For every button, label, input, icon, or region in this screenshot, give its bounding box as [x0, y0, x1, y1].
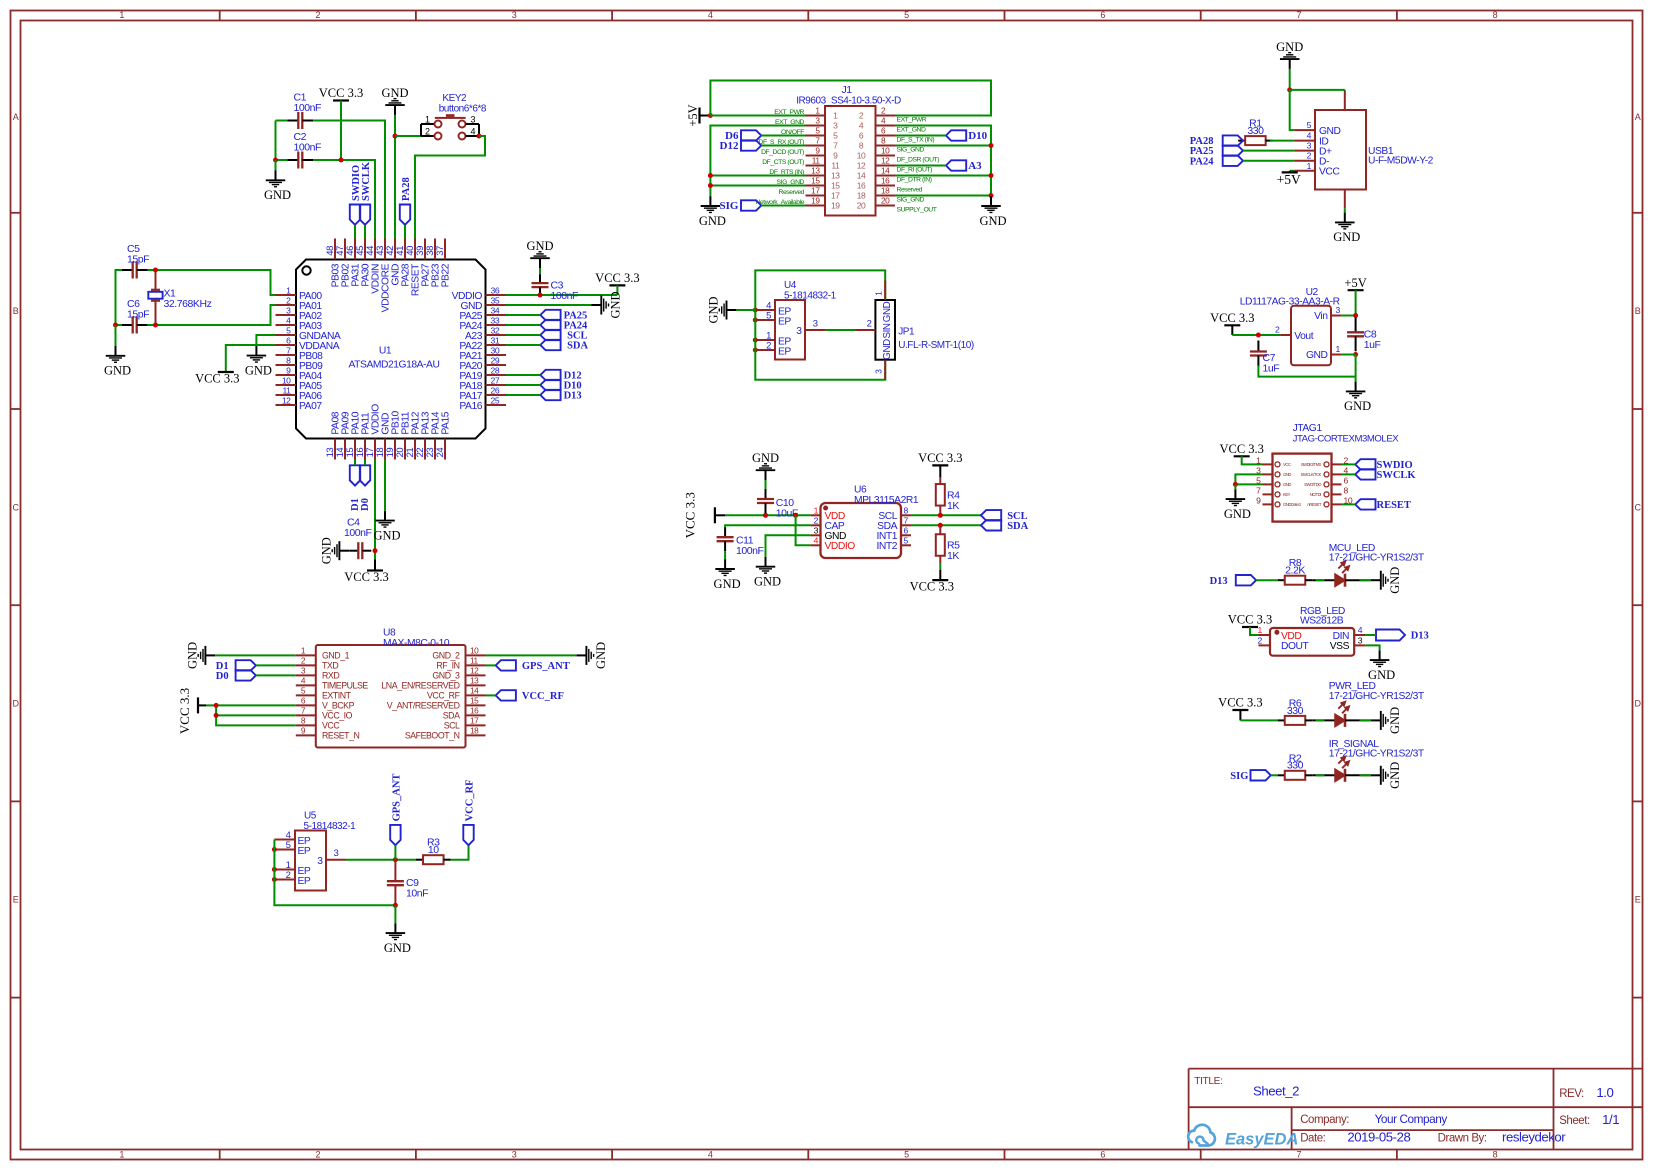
svg-text:4: 4	[471, 126, 476, 136]
net port A3	[946, 160, 966, 170]
wire LED to GND	[1345, 579, 1371, 581]
svg-text:1uF: 1uF	[1263, 363, 1280, 375]
svg-text:18: 18	[881, 186, 890, 196]
svg-text:REV:: REV:	[1559, 1088, 1584, 1100]
net port SIG	[741, 200, 761, 210]
svg-text:6: 6	[1100, 10, 1105, 20]
svg-text:3: 3	[1307, 141, 1312, 151]
title texts	[1194, 1076, 1619, 1144]
svg-text:SIG_GND: SIG_GND	[897, 147, 925, 154]
svg-text:12: 12	[282, 396, 291, 406]
svg-text:GND: GND	[1224, 507, 1251, 521]
U6 right pins	[901, 514, 911, 516]
svg-text:4: 4	[1307, 131, 1312, 141]
svg-text:GND: GND	[714, 577, 741, 591]
wire SIG_GND row18	[895, 195, 991, 197]
ground flag above C3	[539, 268, 541, 272]
svg-text:SWO/TDO: SWO/TDO	[1304, 482, 1322, 487]
wire R2 to LED	[1312, 774, 1335, 776]
svg-text:VCC 3.3: VCC 3.3	[683, 492, 698, 538]
svg-text:Drawn By:: Drawn By:	[1438, 1132, 1487, 1144]
svg-text:5: 5	[286, 840, 291, 851]
svg-text:15pF: 15pF	[127, 254, 149, 266]
svg-text:4: 4	[286, 316, 291, 326]
svg-text:330: 330	[1287, 760, 1304, 772]
svg-text:1: 1	[1307, 161, 1312, 171]
wire GND row	[1342, 354, 1356, 356]
svg-text:330: 330	[1247, 125, 1264, 137]
ground below C5 C6	[115, 325, 117, 346]
U5 pin3	[326, 859, 346, 861]
svg-text:Sheet_2: Sheet_2	[1253, 1084, 1299, 1099]
svg-text:17: 17	[470, 715, 479, 725]
svg-text:VCC_RF: VCC_RF	[522, 691, 564, 702]
svg-text:D10: D10	[968, 130, 987, 142]
svg-text:GND: GND	[1283, 472, 1291, 477]
svg-text:14: 14	[857, 171, 866, 181]
svg-text:U1: U1	[379, 346, 392, 357]
svg-text:RESET_N: RESET_N	[322, 731, 360, 741]
power flag VCC 3.3 below R5	[932, 579, 948, 581]
svg-text:10: 10	[470, 645, 479, 655]
net port PA24 at USB	[1223, 156, 1243, 166]
svg-text:U6: U6	[854, 484, 867, 495]
svg-text:D0: D0	[360, 498, 371, 511]
svg-text:100nF: 100nF	[344, 527, 372, 539]
svg-text:VCC 3.3: VCC 3.3	[595, 271, 639, 285]
wire GND pin18 down	[384, 460, 386, 511]
svg-text:1K: 1K	[947, 500, 959, 512]
net port D1 bottom	[350, 465, 361, 511]
ground left of U8 pin1	[206, 654, 215, 656]
svg-text:E: E	[13, 895, 19, 905]
ground below C1 C2	[275, 160, 277, 171]
wire EXT_GND left	[710, 126, 805, 197]
wire GND to shield	[1290, 89, 1345, 91]
net port GPS_ANT down	[390, 825, 400, 845]
capacitor C5	[122, 269, 133, 271]
wire KEY2 to RESET pin40	[415, 136, 485, 239]
wire VDDIO branch	[796, 515, 811, 545]
svg-text:8: 8	[286, 356, 291, 366]
svg-text:12: 12	[470, 665, 479, 675]
svg-text:3: 3	[814, 526, 819, 536]
svg-text:V_ANT/RESERVED: V_ANT/RESERVED	[387, 701, 460, 711]
ground flag above USB1	[1289, 69, 1291, 90]
capacitor C9 vertical	[394, 860, 396, 882]
svg-text:GND: GND	[609, 291, 623, 318]
svg-text:18: 18	[470, 725, 479, 735]
power flag VCC 3.3 top	[333, 99, 349, 101]
svg-text:13: 13	[811, 166, 820, 176]
svg-text:GND: GND	[754, 575, 781, 589]
net port D13 at MCU_LED	[1236, 575, 1256, 585]
svg-text:RESET: RESET	[1377, 500, 1411, 511]
svg-text:3: 3	[1358, 635, 1363, 645]
svg-text:INT2: INT2	[876, 541, 897, 552]
wire crystal bottom to PA01	[148, 324, 156, 326]
svg-text:GND: GND	[1283, 482, 1291, 487]
ground flag GNDANA	[255, 345, 257, 347]
svg-text:4: 4	[814, 536, 819, 546]
svg-text:WS2812B: WS2812B	[1300, 616, 1344, 627]
svg-text:17: 17	[811, 186, 820, 196]
wire SCL row	[911, 514, 981, 516]
svg-text:+5V: +5V	[686, 104, 700, 126]
svg-text:SDA: SDA	[443, 711, 460, 721]
svg-text:100nF: 100nF	[294, 102, 322, 114]
svg-text:JTAG1: JTAG1	[1293, 423, 1323, 434]
svg-text:VCC 3.3: VCC 3.3	[1228, 613, 1272, 627]
svg-text:DF_DCD (OUT): DF_DCD (OUT)	[761, 149, 804, 156]
svg-text:SDA: SDA	[1007, 521, 1028, 532]
svg-text:15: 15	[470, 695, 479, 705]
svg-text:15: 15	[811, 176, 820, 186]
svg-text:VCC 3.3: VCC 3.3	[195, 372, 239, 386]
svg-text:DOUT: DOUT	[1281, 641, 1310, 652]
ground right of U8 pin10	[577, 654, 586, 656]
svg-text:6: 6	[904, 526, 909, 536]
U2 pin Vout	[1280, 334, 1291, 336]
svg-text:2: 2	[859, 111, 864, 121]
net port SDA right	[981, 520, 1001, 530]
U5 left frame wire	[274, 840, 395, 906]
svg-text:15pF: 15pF	[127, 309, 149, 321]
ground right of IR_SIGNAL	[1371, 774, 1380, 776]
svg-text:2: 2	[425, 126, 430, 136]
svg-text:11: 11	[470, 655, 479, 665]
capacitor C8	[1355, 317, 1357, 332]
svg-text:1: 1	[833, 111, 838, 121]
net port D13 right of RGB	[1376, 630, 1429, 642]
svg-text:7: 7	[833, 141, 838, 151]
svg-text:GND: GND	[882, 339, 893, 360]
USB shield pin top	[1344, 90, 1346, 110]
wire VSS to GND	[1366, 645, 1380, 650]
svg-text:12: 12	[881, 156, 890, 166]
svg-text:EP: EP	[298, 876, 311, 887]
wire crystal top to PA00	[148, 269, 156, 271]
svg-text:2.2K: 2.2K	[1285, 565, 1305, 577]
wire SDA row	[911, 524, 981, 526]
wire GND pin10	[486, 654, 577, 656]
svg-text:SDA: SDA	[567, 341, 588, 352]
wire C7 to GND net	[1258, 366, 1355, 377]
wire VDDIN row	[313, 160, 375, 239]
svg-text:5: 5	[766, 311, 771, 322]
svg-text:VCC_RF: VCC_RF	[465, 779, 476, 821]
ground flag left of C4	[340, 550, 349, 552]
svg-text:GND: GND	[882, 301, 893, 322]
U4 EP pins	[755, 309, 775, 311]
svg-text:5: 5	[1307, 120, 1312, 130]
svg-text:37: 37	[435, 246, 446, 256]
wire GND pin35	[506, 304, 592, 306]
svg-text:4: 4	[708, 1150, 713, 1160]
U5 EP pins	[274, 839, 295, 841]
ground below U2	[1355, 381, 1357, 383]
svg-text:SCL: SCL	[444, 721, 460, 731]
net port D12	[741, 140, 761, 150]
svg-text:nRESET: nRESET	[1307, 502, 1321, 507]
svg-text:33: 33	[491, 316, 500, 326]
svg-text:11: 11	[282, 386, 291, 396]
svg-text:SAFEBOOT_N: SAFEBOOT_N	[405, 731, 460, 741]
svg-text:2: 2	[1307, 151, 1312, 161]
svg-text:DF_DTR (IN): DF_DTR (IN)	[897, 177, 932, 184]
wire SIG to R2	[1271, 774, 1278, 776]
wire GND stem to pin42	[394, 136, 396, 239]
net port SWCLK	[360, 205, 370, 225]
svg-text:DF_DSR (OUT): DF_DSR (OUT)	[897, 157, 940, 164]
svg-text:PA28: PA28	[401, 177, 412, 201]
svg-text:GND: GND	[752, 451, 779, 465]
wire R1 to ID	[1270, 140, 1295, 142]
svg-text:10: 10	[857, 151, 866, 161]
svg-text:RXD: RXD	[322, 671, 339, 681]
wire D13 to R8	[1256, 579, 1278, 581]
wire SIG_GND row8	[895, 145, 991, 147]
svg-text:SIG_GND: SIG_GND	[897, 197, 925, 204]
net ports D12 D10 D13	[540, 370, 560, 380]
wire DF_DTR row14	[895, 175, 991, 177]
resistor R2	[1278, 774, 1285, 776]
svg-text:16: 16	[881, 176, 890, 186]
svg-text:VCC 3.3: VCC 3.3	[344, 570, 388, 584]
U8 left pins	[296, 654, 316, 656]
net port VCC_RF at U8	[496, 690, 516, 700]
svg-text:PA16: PA16	[459, 401, 482, 412]
power flag VCC 3.3 at JTAG	[1234, 455, 1250, 457]
svg-text:35: 35	[491, 296, 500, 306]
junction C2-GND vertical	[273, 158, 278, 163]
svg-text:SIN: SIN	[882, 323, 893, 338]
svg-text:1: 1	[119, 10, 124, 20]
U6 left pins	[811, 514, 821, 516]
svg-text:GND: GND	[186, 642, 200, 669]
svg-text:VCC: VCC	[1319, 167, 1340, 178]
svg-text:2: 2	[286, 870, 291, 881]
svg-text:GND: GND	[594, 642, 608, 669]
svg-text:Reserved: Reserved	[779, 189, 805, 196]
net port SWDIO at JTAG	[1355, 459, 1375, 469]
sensor U6 body	[821, 503, 902, 558]
svg-text:3: 3	[286, 306, 291, 316]
svg-text:DF_RI (OUT): DF_RI (OUT)	[897, 167, 933, 174]
ground below RGB VSS	[1379, 649, 1381, 651]
svg-text:LNA_EN/RESERVED: LNA_EN/RESERVED	[381, 681, 459, 691]
wire GND to pin5	[1290, 90, 1295, 130]
svg-text:PA24: PA24	[1190, 156, 1214, 167]
wire U4 pin3 to JP1	[825, 329, 856, 331]
svg-text:Vin: Vin	[1314, 311, 1328, 322]
svg-text:B: B	[13, 306, 19, 316]
svg-text:SWCLK: SWCLK	[361, 161, 372, 201]
wire VDD row	[725, 514, 811, 516]
svg-text:8: 8	[904, 506, 909, 516]
svg-text:1K: 1K	[947, 550, 959, 562]
svg-text:GND: GND	[526, 239, 553, 253]
power flag VCC 3.3 at RGB	[1242, 626, 1258, 628]
JP1 pin1	[884, 281, 886, 301]
svg-text:26: 26	[491, 386, 500, 396]
svg-text:24: 24	[435, 448, 446, 458]
U4 pin3	[805, 329, 825, 331]
svg-text:D13: D13	[1411, 631, 1429, 642]
wire VDDIO pin36	[506, 294, 617, 296]
svg-text:D: D	[12, 699, 19, 709]
svg-text:GND: GND	[979, 214, 1006, 228]
crystal X1	[155, 270, 157, 290]
svg-text:VCC 3.3: VCC 3.3	[1210, 311, 1254, 325]
MCU U1 body	[296, 260, 486, 439]
RGB pin DOUT	[1259, 644, 1271, 646]
svg-text:7: 7	[1297, 10, 1302, 20]
wire PWR LED to GND	[1345, 719, 1371, 721]
svg-text:10: 10	[881, 146, 890, 156]
svg-text:VCC_IO: VCC_IO	[322, 711, 353, 721]
net port D10	[946, 130, 966, 140]
ground below JTAG	[1234, 484, 1236, 489]
svg-text:11: 11	[831, 161, 840, 171]
svg-text:KEY2: KEY2	[442, 93, 467, 104]
svg-text:5: 5	[904, 1150, 909, 1160]
svg-text:2: 2	[316, 10, 321, 20]
GPS module U8 body	[316, 645, 466, 748]
connector J1 body	[825, 106, 876, 216]
svg-text:32: 32	[491, 326, 500, 336]
svg-text:LD1117AG-33-AA3-A-R: LD1117AG-33-AA3-A-R	[1240, 297, 1340, 308]
USB shield pin bottom	[1344, 190, 1346, 209]
ground right of PWR_LED	[1371, 719, 1380, 721]
svg-text:8: 8	[1493, 10, 1498, 20]
svg-text:7: 7	[1297, 1150, 1302, 1160]
svg-text:PB22: PB22	[441, 263, 452, 287]
U2 pin GND	[1331, 354, 1342, 356]
svg-text:15: 15	[831, 181, 840, 191]
JTAG connector JTAG1 body	[1273, 454, 1332, 522]
svg-text:IR9603_SS4-10-3.50-X-D: IR9603_SS4-10-3.50-X-D	[796, 96, 901, 107]
wire JTAG GND pins 3 5	[1235, 474, 1262, 484]
ground below J1 right	[990, 195, 992, 197]
USB connector USB1 body	[1315, 110, 1366, 190]
svg-text:GND: GND	[245, 363, 272, 377]
svg-text:3: 3	[833, 121, 838, 131]
svg-text:U-F-M5DW-Y-2: U-F-M5DW-Y-2	[1368, 155, 1434, 166]
svg-text:5: 5	[286, 326, 291, 336]
wire R3 to VCC_RF	[450, 845, 468, 860]
svg-text:VCC: VCC	[322, 721, 340, 731]
svg-text:TITLE:: TITLE:	[1194, 1076, 1222, 1087]
capacitor C11	[724, 527, 726, 537]
svg-text:J1: J1	[841, 84, 852, 96]
svg-text:17: 17	[831, 191, 840, 201]
resistor R4	[936, 484, 945, 506]
junction VCC3.3 on VDDIN row	[339, 158, 344, 163]
wire R8 to LED	[1312, 579, 1335, 581]
JP1 pin3	[884, 360, 886, 380]
ground below USB1	[1344, 212, 1346, 214]
svg-text:RF_IN: RF_IN	[436, 661, 459, 671]
wire CAP row to C11	[725, 525, 811, 527]
svg-text:Sheet:: Sheet:	[1559, 1115, 1590, 1127]
svg-text:19: 19	[831, 201, 840, 211]
ground below C9	[394, 905, 396, 923]
svg-text:MPL3115A2R1: MPL3115A2R1	[854, 495, 919, 506]
U1 left pins 1-12	[276, 294, 297, 296]
svg-text:100nF: 100nF	[294, 142, 322, 154]
svg-text:25: 25	[491, 396, 500, 406]
svg-text:1uF: 1uF	[1364, 339, 1381, 351]
svg-text:11: 11	[812, 156, 821, 166]
power flag VCC 3.3 left of U8	[197, 697, 199, 713]
net port GPS_ANT at U8	[496, 660, 516, 670]
resistor R1	[1238, 140, 1245, 142]
svg-text:DF_CTS (OUT): DF_CTS (OUT)	[762, 159, 804, 166]
svg-text:GND: GND	[1306, 350, 1328, 361]
antenna U5 body	[295, 831, 326, 891]
JTAG pins	[1263, 463, 1273, 465]
svg-text:VCC: VCC	[1283, 462, 1291, 467]
svg-text:14: 14	[470, 685, 479, 695]
svg-text:2: 2	[867, 319, 872, 330]
svg-text:GND_2: GND_2	[432, 651, 460, 661]
title block	[1189, 1069, 1643, 1150]
wire VDDANA	[226, 345, 276, 372]
U4 frame wire	[755, 310, 885, 380]
svg-text:GND: GND	[373, 528, 400, 542]
capacitor C6	[122, 324, 133, 326]
USB1 pins	[1294, 129, 1315, 131]
svg-text:1.0: 1.0	[1596, 1085, 1613, 1100]
svg-text:5-1814832-1: 5-1814832-1	[784, 290, 837, 301]
svg-text:EP: EP	[778, 316, 791, 327]
svg-text:GPS_ANT: GPS_ANT	[391, 774, 402, 822]
svg-text:E: E	[1635, 895, 1641, 905]
svg-text:GND: GND	[264, 188, 291, 202]
svg-text:resleydekor: resleydekor	[1502, 1129, 1566, 1144]
svg-text:10: 10	[282, 376, 291, 386]
svg-text:VCC 3.3: VCC 3.3	[918, 451, 962, 465]
net port VCC_RF down	[463, 825, 473, 845]
svg-text:TXD: TXD	[322, 661, 338, 671]
svg-text:EP: EP	[298, 846, 311, 857]
svg-text:30: 30	[491, 346, 500, 356]
resistor R5	[936, 534, 945, 556]
svg-text:VSS: VSS	[1330, 641, 1350, 652]
svg-text:VDD: VDD	[1281, 631, 1301, 642]
resistor R3	[416, 859, 423, 861]
svg-text:KEY: KEY	[1283, 492, 1291, 497]
svg-text:3: 3	[334, 848, 339, 859]
U2 pin Vin	[1331, 315, 1342, 317]
svg-text:GND: GND	[1388, 567, 1402, 594]
RGB pin DIN	[1354, 634, 1366, 636]
wire C1 left vertical to GND	[275, 121, 277, 161]
net port SWDIO	[350, 205, 360, 225]
svg-text:MAX-M8C-0-10: MAX-M8C-0-10	[383, 638, 450, 649]
LED PWR_LED	[1335, 714, 1345, 726]
svg-text:Your Company: Your Company	[1375, 1112, 1448, 1126]
junction KEY2 pin4	[477, 134, 482, 139]
wire SIG_GND row15	[710, 185, 805, 187]
svg-text:7: 7	[904, 516, 909, 526]
svg-text:3: 3	[512, 1150, 517, 1160]
capacitor C7	[1257, 341, 1259, 352]
svg-text:GND: GND	[104, 364, 131, 378]
svg-text:28: 28	[491, 366, 500, 376]
svg-text:VCC 3.3: VCC 3.3	[1219, 442, 1263, 456]
